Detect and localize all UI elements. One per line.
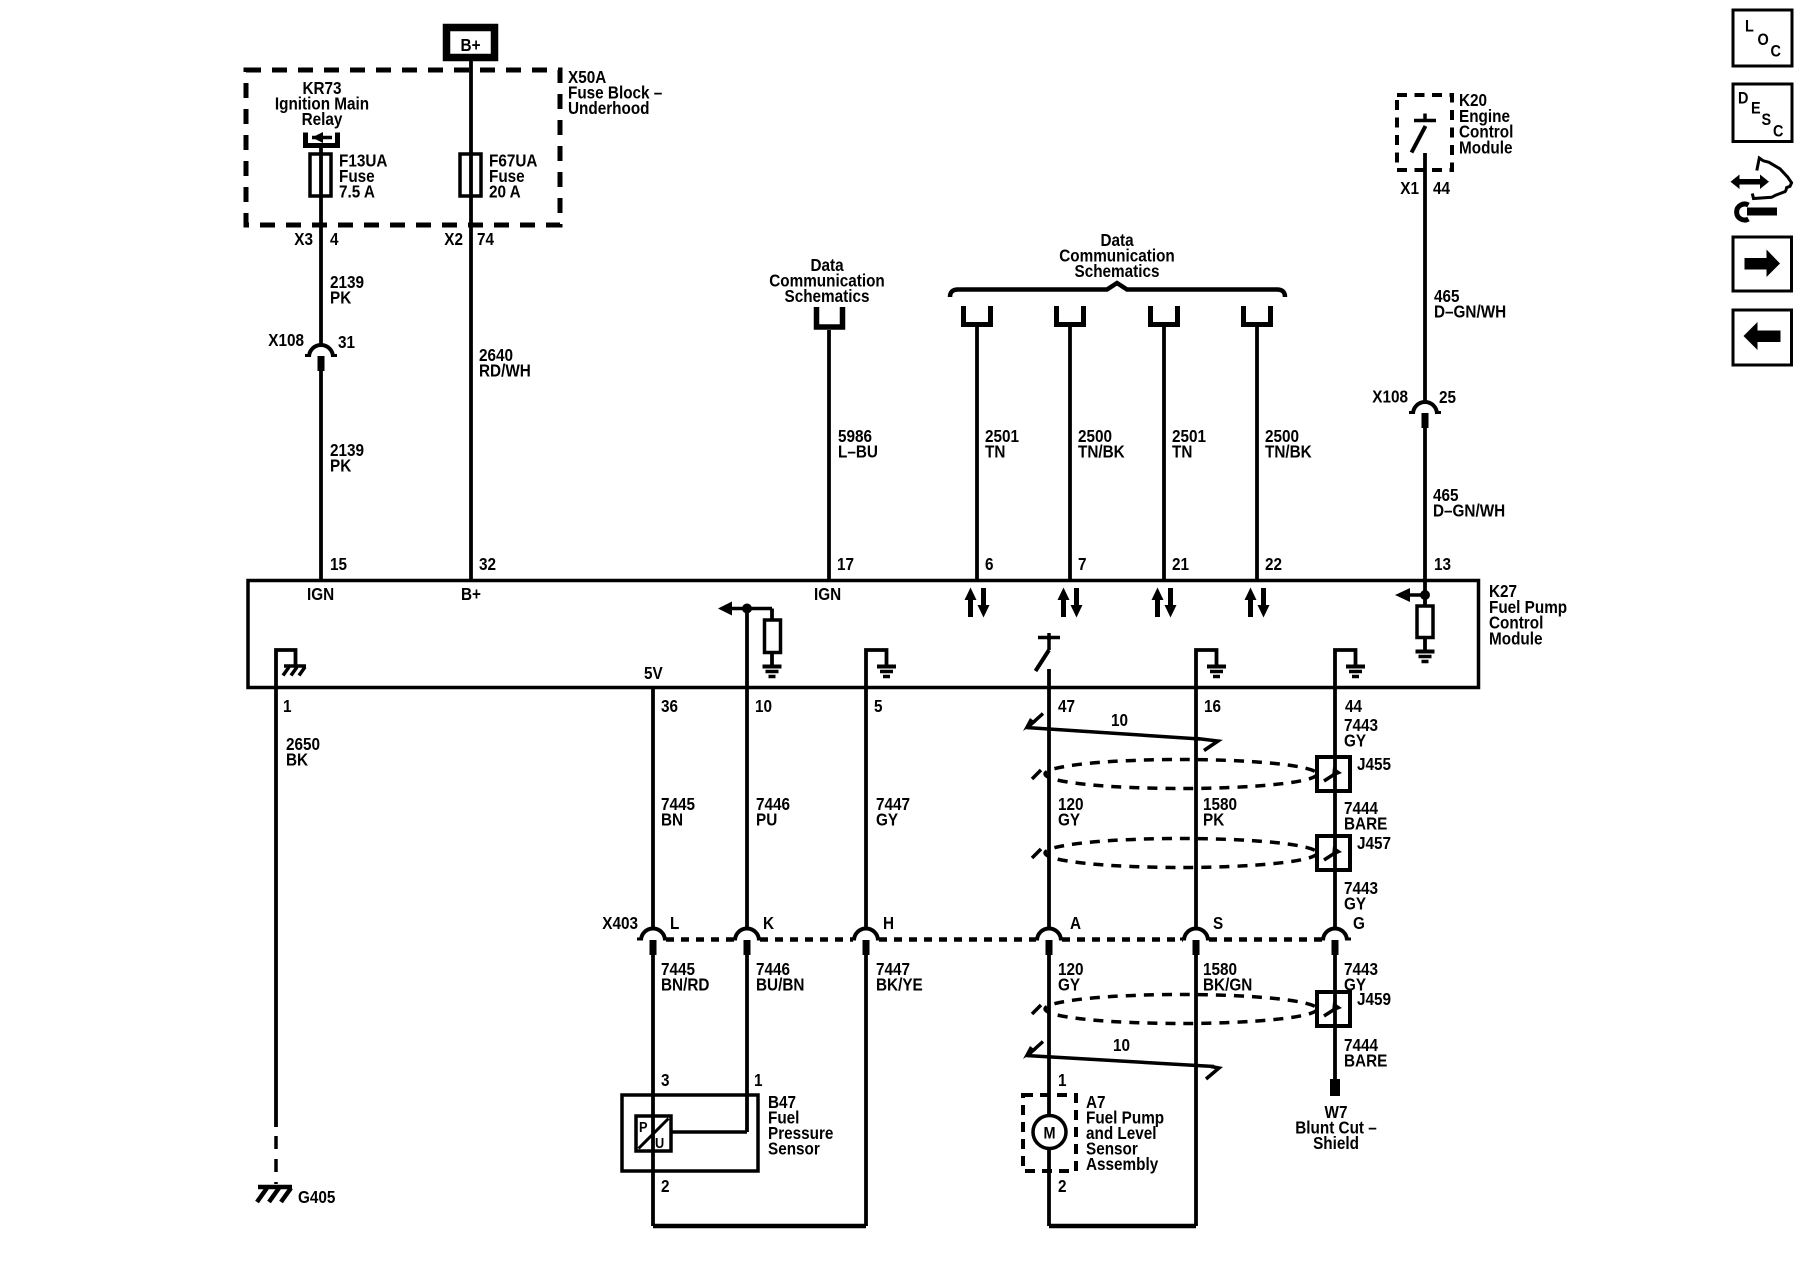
svg-text:B+: B+ bbox=[461, 35, 481, 55]
svg-text:5V: 5V bbox=[644, 663, 663, 683]
svg-text:7.5 A: 7.5 A bbox=[339, 181, 375, 201]
svg-text:PK: PK bbox=[330, 455, 351, 475]
svg-text:GY: GY bbox=[1344, 893, 1366, 913]
svg-text:BARE: BARE bbox=[1344, 813, 1387, 833]
svg-text:X403: X403 bbox=[602, 913, 638, 933]
svg-text:J455: J455 bbox=[1357, 754, 1391, 774]
svg-text:Module: Module bbox=[1489, 628, 1542, 648]
svg-text:GY: GY bbox=[876, 809, 898, 829]
svg-text:BK/YE: BK/YE bbox=[876, 974, 923, 994]
svg-text:1: 1 bbox=[754, 1070, 763, 1090]
svg-text:6: 6 bbox=[985, 554, 994, 574]
svg-text:A: A bbox=[1070, 913, 1081, 933]
svg-text:L: L bbox=[1745, 17, 1754, 35]
svg-text:G405: G405 bbox=[298, 1187, 335, 1207]
svg-text:U: U bbox=[655, 1134, 664, 1151]
svg-text:L: L bbox=[670, 913, 679, 933]
svg-text:TN: TN bbox=[1172, 441, 1192, 461]
svg-text:3: 3 bbox=[661, 1070, 670, 1090]
svg-text:X1: X1 bbox=[1400, 178, 1419, 198]
svg-text:47: 47 bbox=[1058, 696, 1075, 716]
svg-text:D–GN/WH: D–GN/WH bbox=[1433, 500, 1505, 520]
svg-text:BN: BN bbox=[661, 809, 683, 829]
svg-text:X3: X3 bbox=[294, 229, 313, 249]
svg-text:Shield: Shield bbox=[1313, 1133, 1359, 1153]
svg-text:PK: PK bbox=[330, 287, 351, 307]
svg-text:M: M bbox=[1043, 1124, 1055, 1142]
svg-text:10: 10 bbox=[1111, 710, 1128, 730]
svg-text:TN: TN bbox=[985, 441, 1005, 461]
svg-text:Sensor: Sensor bbox=[768, 1138, 820, 1158]
svg-text:4: 4 bbox=[330, 229, 339, 249]
svg-text:GY: GY bbox=[1344, 730, 1366, 750]
svg-text:X108: X108 bbox=[1372, 386, 1408, 406]
svg-text:1: 1 bbox=[283, 696, 292, 716]
svg-text:20 A: 20 A bbox=[489, 181, 521, 201]
svg-text:32: 32 bbox=[479, 554, 496, 574]
svg-text:O: O bbox=[1758, 31, 1769, 49]
svg-text:D–GN/WH: D–GN/WH bbox=[1434, 301, 1506, 321]
svg-text:PK: PK bbox=[1203, 809, 1224, 829]
svg-text:J457: J457 bbox=[1357, 833, 1391, 853]
svg-text:16: 16 bbox=[1204, 696, 1221, 716]
svg-text:L–BU: L–BU bbox=[838, 441, 878, 461]
svg-text:G: G bbox=[1353, 913, 1365, 933]
svg-text:44: 44 bbox=[1433, 178, 1451, 198]
svg-text:GY: GY bbox=[1058, 809, 1080, 829]
svg-text:36: 36 bbox=[661, 696, 678, 716]
svg-text:BK: BK bbox=[286, 749, 308, 769]
svg-text:Schematics: Schematics bbox=[785, 286, 870, 306]
svg-text:7: 7 bbox=[1078, 554, 1087, 574]
svg-text:2: 2 bbox=[661, 1176, 670, 1196]
svg-text:TN/BK: TN/BK bbox=[1265, 441, 1312, 461]
svg-text:BU/BN: BU/BN bbox=[756, 974, 804, 994]
svg-text:B+: B+ bbox=[461, 584, 481, 604]
svg-text:P: P bbox=[639, 1118, 648, 1135]
svg-text:Relay: Relay bbox=[302, 109, 343, 129]
svg-text:Underhood: Underhood bbox=[568, 98, 650, 118]
svg-text:Schematics: Schematics bbox=[1075, 261, 1160, 281]
svg-text:IGN: IGN bbox=[814, 584, 841, 604]
svg-text:H: H bbox=[883, 913, 894, 933]
svg-text:13: 13 bbox=[1434, 554, 1451, 574]
svg-text:2: 2 bbox=[1058, 1176, 1067, 1196]
svg-text:X2: X2 bbox=[444, 229, 463, 249]
svg-text:21: 21 bbox=[1172, 554, 1189, 574]
svg-text:10: 10 bbox=[1113, 1035, 1130, 1055]
svg-text:C: C bbox=[1773, 122, 1783, 140]
svg-text:15: 15 bbox=[330, 554, 347, 574]
svg-text:5: 5 bbox=[874, 696, 883, 716]
svg-text:44: 44 bbox=[1345, 696, 1363, 716]
svg-text:TN/BK: TN/BK bbox=[1078, 441, 1125, 461]
svg-text:IGN: IGN bbox=[307, 584, 334, 604]
svg-text:PU: PU bbox=[756, 809, 777, 829]
svg-text:K: K bbox=[763, 913, 774, 933]
svg-text:S: S bbox=[1213, 913, 1223, 933]
svg-text:BN/RD: BN/RD bbox=[661, 974, 709, 994]
svg-text:X108: X108 bbox=[268, 330, 304, 350]
svg-text:E: E bbox=[1751, 99, 1761, 117]
svg-text:17: 17 bbox=[837, 554, 854, 574]
svg-text:31: 31 bbox=[338, 332, 355, 352]
svg-text:25: 25 bbox=[1439, 387, 1456, 407]
svg-text:J459: J459 bbox=[1357, 989, 1391, 1009]
svg-text:1: 1 bbox=[1058, 1070, 1067, 1090]
svg-text:10: 10 bbox=[755, 696, 772, 716]
svg-text:BK/GN: BK/GN bbox=[1203, 974, 1252, 994]
svg-text:BARE: BARE bbox=[1344, 1050, 1387, 1070]
svg-text:Assembly: Assembly bbox=[1086, 1154, 1159, 1174]
svg-text:Module: Module bbox=[1459, 137, 1512, 157]
svg-text:GY: GY bbox=[1058, 974, 1080, 994]
svg-text:S: S bbox=[1762, 111, 1772, 129]
svg-text:22: 22 bbox=[1265, 554, 1282, 574]
svg-text:RD/WH: RD/WH bbox=[479, 360, 531, 380]
svg-text:74: 74 bbox=[477, 229, 495, 249]
svg-text:C: C bbox=[1771, 42, 1781, 60]
svg-text:D: D bbox=[1738, 89, 1748, 107]
